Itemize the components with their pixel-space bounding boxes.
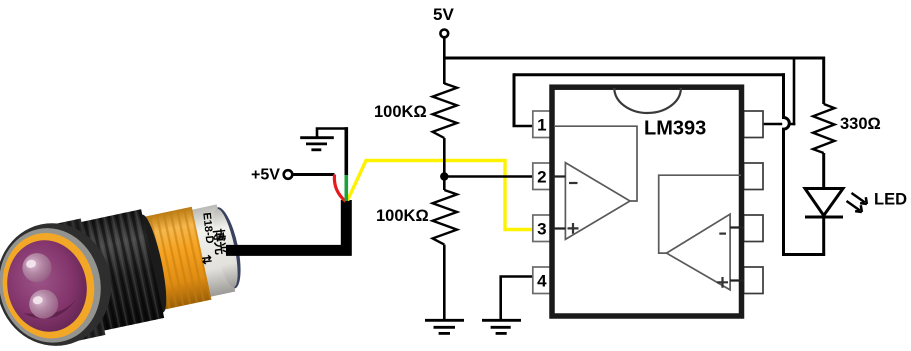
op-amp A triangle (565, 163, 630, 240)
svg-text:100KΩ: 100KΩ (376, 207, 429, 225)
wire rail to 330 (822, 57, 825, 105)
wire bottom to left (784, 253, 826, 256)
pin boxes left (533, 111, 553, 294)
wire LED cathode down (822, 217, 825, 255)
wire pin8 to 5V (763, 123, 795, 126)
pin numbers (537, 116, 547, 291)
wire R2 to ground (443, 245, 446, 319)
wire ground horizontal (317, 127, 348, 137)
op-amp B plus (717, 277, 728, 288)
wire feedback top horizontal (514, 73, 785, 76)
orange front ring (0, 224, 104, 347)
wire ground to cable black (344, 127, 348, 175)
op-amp A inputs stubs (553, 177, 565, 229)
gray front rim (0, 219, 111, 351)
red wire (334, 175, 345, 202)
svg-text:+5V: +5V (251, 167, 280, 184)
op-amp A plus (568, 223, 579, 234)
op-amp A minus (569, 182, 578, 184)
emitter dome (20, 250, 54, 284)
op-amp U1 LM393 body (552, 87, 742, 316)
svg-text:LM393: LM393 (644, 118, 706, 140)
lens shadow crescent (22, 298, 80, 323)
op-amp B inputs stubs (730, 228, 744, 281)
wire 330 to LED (822, 153, 825, 188)
svg-text:博光: 博光 (211, 228, 229, 255)
resistor R3 330 (813, 104, 835, 153)
purple lens (0, 233, 95, 339)
ground divider (425, 320, 464, 333)
op-amp B link pin7 (659, 175, 741, 253)
endcap (206, 205, 247, 291)
knurled nut (79, 207, 173, 331)
wire pin4 to ground (501, 275, 533, 319)
front bezel ring (0, 213, 122, 351)
wire 5V drop to pin8 (793, 58, 796, 125)
svg-text:4: 4 (537, 272, 547, 291)
svg-text:3: 3 (537, 220, 546, 239)
op-amp A link pin1 (554, 126, 637, 201)
sensor cable (thick) (226, 200, 346, 250)
pin boxes right (744, 111, 764, 294)
svg-text:⇅: ⇅ (199, 254, 214, 265)
svg-text:1: 1 (537, 116, 546, 135)
node junction dot (440, 172, 448, 180)
LED D1 (805, 189, 843, 218)
svg-text:330Ω: 330Ω (840, 115, 881, 133)
wire 5V rail top (444, 57, 823, 60)
svg-text:5V: 5V (433, 5, 454, 24)
sensor photo: E18-D80NK IR proximity sensor (0, 185, 251, 351)
+5V terminal (284, 170, 293, 179)
yellow signal wire (348, 161, 534, 230)
wire R1 to node (443, 138, 446, 190)
notch (614, 88, 681, 113)
wire node to pin2 (444, 175, 565, 178)
resistor R2 100K bottom (433, 190, 457, 245)
svg-text:2: 2 (537, 168, 546, 187)
op-amp B minus (719, 233, 726, 235)
label band (191, 203, 243, 297)
svg-text:100KΩ: 100KΩ (374, 103, 427, 121)
op-amp B triangle (667, 214, 731, 290)
wire feedback vertical with hop (784, 73, 790, 256)
ground pin4 (482, 320, 521, 333)
svg-text:LED: LED (874, 191, 907, 209)
wire into pin1 (513, 125, 534, 128)
wire 5V vertical (443, 37, 446, 84)
receiver dome (26, 287, 60, 321)
green wire (344, 174, 348, 201)
orange barrel (141, 207, 212, 311)
ground sensor (300, 138, 334, 150)
5V terminal circle (440, 30, 448, 38)
wire down to pin1 (513, 73, 516, 126)
wire +5V to cable (293, 173, 335, 176)
LED arrows (847, 193, 867, 212)
resistor R1 100K top (433, 83, 457, 138)
